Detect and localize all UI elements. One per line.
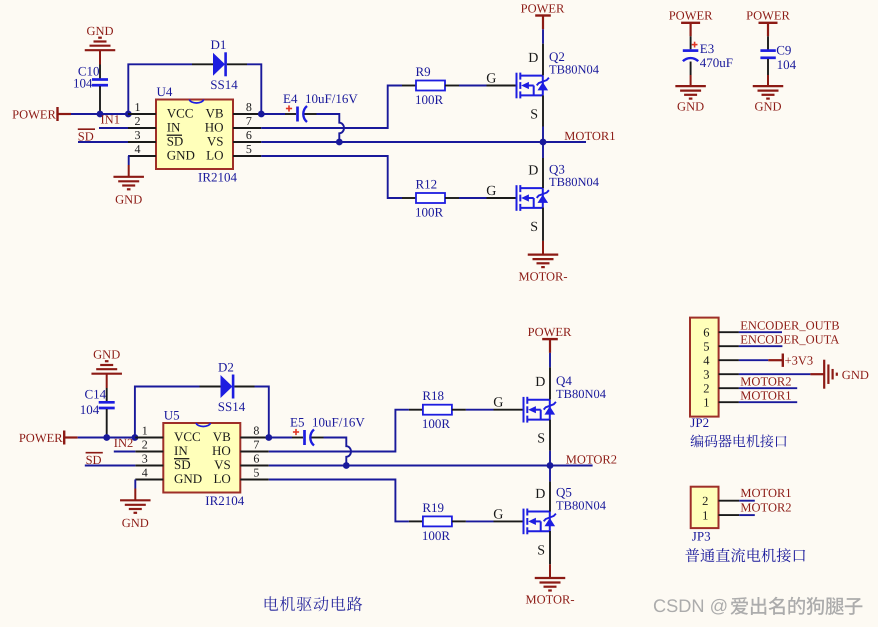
ground GND (below E3) bbox=[675, 75, 706, 114]
wire VCC loop to diode D2 bbox=[135, 387, 200, 435]
wire diode to VB node (sec2) bbox=[255, 387, 269, 435]
svg-text:C14: C14 bbox=[85, 386, 107, 401]
junction at D-loop branch (sec1) bbox=[125, 111, 132, 118]
svg-text:U4: U4 bbox=[157, 84, 173, 99]
net label ENCODER_OUTB bbox=[740, 319, 839, 333]
svg-text:+3V3: +3V3 bbox=[785, 353, 814, 367]
svg-text:VS: VS bbox=[214, 457, 231, 472]
svg-text:VS: VS bbox=[207, 133, 224, 148]
svg-text:2: 2 bbox=[702, 494, 708, 508]
svg-text:HO: HO bbox=[212, 443, 231, 458]
svg-text:100R: 100R bbox=[422, 528, 451, 543]
resistor R12 100R bbox=[402, 177, 459, 220]
capacitor E5 10uF/16V bbox=[269, 415, 366, 446]
svg-text:5: 5 bbox=[246, 142, 252, 156]
svg-text:POWER: POWER bbox=[669, 8, 713, 22]
net label IN2 bbox=[114, 436, 133, 450]
svg-text:LO: LO bbox=[206, 147, 223, 162]
svg-text:POWER: POWER bbox=[19, 431, 63, 445]
wire VCC loop to diode D1 bbox=[128, 64, 192, 111]
label encoder motor interface (Chinese) bbox=[690, 434, 786, 447]
transistor Q3 TB80N04 (low side) bbox=[486, 161, 600, 235]
title motor drive circuit (Chinese) bbox=[265, 596, 363, 611]
svg-text:Q3: Q3 bbox=[549, 161, 565, 176]
svg-text:7: 7 bbox=[253, 438, 259, 452]
svg-text:S: S bbox=[530, 220, 538, 235]
wire source Q4 to MOTOR2 bbox=[549, 420, 551, 466]
net label MOTOR2 bbox=[566, 453, 617, 467]
svg-text:GND: GND bbox=[122, 516, 149, 530]
wire pin3 to GND bbox=[739, 373, 811, 375]
wire pin4 to +3V3 bbox=[739, 359, 768, 361]
svg-text:GND: GND bbox=[86, 24, 113, 38]
svg-text:GND: GND bbox=[174, 471, 202, 486]
svg-text:8: 8 bbox=[253, 424, 259, 438]
power port POWER (above E3) bbox=[669, 8, 713, 36]
watermark CSDN bbox=[653, 596, 862, 616]
svg-text:3: 3 bbox=[142, 452, 148, 466]
svg-text:6: 6 bbox=[253, 452, 259, 466]
wire drain Q3 to MOTOR1 bbox=[542, 142, 544, 188]
wire MOTOR2 (JP3) bbox=[739, 514, 755, 516]
wire IN2 to pin2 bbox=[114, 451, 136, 453]
svg-text:104: 104 bbox=[73, 75, 93, 90]
transistor Q2 TB80N04 (high side) bbox=[486, 49, 600, 123]
svg-text:IR2104: IR2104 bbox=[198, 170, 238, 185]
wire MOTOR1 (JP2) bbox=[739, 401, 797, 403]
svg-text:GND: GND bbox=[677, 100, 704, 114]
label DC motor interface (Chinese) bbox=[685, 548, 805, 562]
svg-text:MOTOR2: MOTOR2 bbox=[740, 375, 791, 389]
wire LO to R (sec2) bbox=[269, 480, 409, 522]
svg-text:6: 6 bbox=[703, 326, 709, 340]
wire R to gate (R19) bbox=[466, 520, 494, 522]
svg-text:D: D bbox=[528, 163, 538, 178]
wire E5 to VS with hop bbox=[324, 438, 351, 466]
wire source Q5 to MOTOR- bbox=[549, 531, 551, 578]
svg-text:GND: GND bbox=[93, 347, 120, 361]
wire ENCODER_OUTA bbox=[739, 345, 783, 347]
junction VB node (sec1) bbox=[258, 111, 265, 118]
net label IN1 bbox=[101, 113, 120, 127]
svg-text:E4: E4 bbox=[283, 91, 298, 106]
wire HO to R (sec2) bbox=[269, 410, 409, 452]
resistor R19 100R bbox=[409, 500, 466, 543]
power port +3V3 bbox=[768, 353, 813, 367]
power port MOTOR- (sec2) bbox=[525, 578, 574, 607]
svg-text:CSDN @: CSDN @ bbox=[653, 596, 728, 616]
junction E4/VS bbox=[336, 139, 343, 146]
svg-text:7: 7 bbox=[246, 114, 252, 128]
wire MOTOR2 (JP2) bbox=[739, 387, 797, 389]
svg-text:VCC: VCC bbox=[167, 105, 194, 120]
svg-text:TB80N04: TB80N04 bbox=[556, 499, 607, 513]
svg-text:100R: 100R bbox=[415, 205, 444, 220]
svg-text:1: 1 bbox=[703, 396, 709, 410]
svg-text:Q4: Q4 bbox=[556, 373, 572, 388]
svg-text:ENCODER_OUTA: ENCODER_OUTA bbox=[740, 333, 839, 347]
svg-text:GND: GND bbox=[115, 193, 142, 207]
power port POWER (above C9) bbox=[746, 8, 790, 36]
wire R to gate (R18) bbox=[466, 409, 494, 411]
net label MOTOR1 bbox=[564, 129, 615, 143]
power port POWER (left, sec1) bbox=[12, 107, 71, 121]
svg-text:470uF: 470uF bbox=[700, 55, 733, 70]
ground GND (top, above C14) bbox=[91, 347, 122, 388]
ground GND (below U4) bbox=[113, 156, 144, 207]
svg-text:104: 104 bbox=[80, 402, 100, 417]
svg-text:VCC: VCC bbox=[174, 429, 201, 444]
svg-text:1: 1 bbox=[702, 509, 708, 523]
op-amp driver IC U4 IR2104 bbox=[128, 84, 261, 185]
wire source Q2 to MOTOR1 bbox=[542, 95, 544, 142]
svg-text:R12: R12 bbox=[416, 177, 438, 192]
svg-text:GND: GND bbox=[842, 368, 869, 382]
diode D2 SS14 bbox=[200, 359, 255, 414]
svg-text:3: 3 bbox=[703, 368, 709, 382]
ground GND (below U5) bbox=[120, 480, 151, 531]
svg-text:MOTOR1: MOTOR1 bbox=[740, 486, 791, 500]
svg-text:C9: C9 bbox=[776, 43, 791, 58]
wire ENCODER_OUTB bbox=[739, 331, 782, 333]
wire net MOTOR1 bbox=[261, 141, 586, 143]
svg-text:MOTOR-: MOTOR- bbox=[518, 269, 567, 283]
svg-text:R18: R18 bbox=[422, 388, 444, 403]
svg-text:SS14: SS14 bbox=[210, 77, 238, 92]
transistor Q4 TB80N04 (high side) bbox=[493, 373, 607, 447]
net label SD (sec1) bbox=[78, 129, 95, 144]
net label MOTOR1 (JP2) bbox=[740, 389, 791, 403]
svg-text:HO: HO bbox=[205, 119, 224, 134]
svg-text:2: 2 bbox=[135, 114, 141, 128]
svg-text:R19: R19 bbox=[422, 500, 444, 515]
svg-text:GND: GND bbox=[754, 100, 781, 114]
wire IN1 to pin2 bbox=[99, 127, 128, 129]
wire drain Q5 to MOTOR2 bbox=[549, 466, 551, 512]
svg-text:TB80N04: TB80N04 bbox=[556, 387, 607, 401]
svg-text:104: 104 bbox=[777, 57, 797, 72]
wire POWER to pin1 (sec2) bbox=[78, 437, 135, 439]
svg-text:LO: LO bbox=[213, 471, 230, 486]
net label SD (sec2) bbox=[86, 453, 103, 468]
capacitor C14 104 bbox=[80, 386, 115, 437]
svg-text:10uF/16V: 10uF/16V bbox=[305, 91, 358, 106]
wire net MOTOR2 bbox=[269, 465, 593, 467]
wire SD to pin3 (sec1) bbox=[78, 141, 128, 143]
connector JP3 (DC motor header) bbox=[691, 487, 740, 544]
svg-text:100R: 100R bbox=[415, 92, 444, 107]
svg-text:ENCODER_OUTB: ENCODER_OUTB bbox=[740, 319, 839, 333]
svg-text:8: 8 bbox=[246, 100, 252, 114]
svg-text:JP2: JP2 bbox=[690, 415, 709, 430]
ground GND (below C9) bbox=[753, 75, 784, 114]
svg-text:IN: IN bbox=[174, 443, 188, 458]
svg-text:3: 3 bbox=[135, 128, 141, 142]
svg-text:MOTOR1: MOTOR1 bbox=[740, 389, 791, 403]
junction at C10/POWER bbox=[97, 111, 104, 118]
svg-text:G: G bbox=[493, 396, 503, 411]
wire R to gate (R9) bbox=[459, 85, 487, 87]
wire diode to VB node (sec1) bbox=[247, 64, 261, 111]
svg-text:Q2: Q2 bbox=[549, 49, 565, 64]
net label MOTOR2 (JP2) bbox=[740, 375, 791, 389]
svg-text:Q5: Q5 bbox=[556, 485, 572, 500]
power port POWER (above Q2) bbox=[521, 2, 565, 30]
svg-text:MOTOR-: MOTOR- bbox=[525, 593, 574, 607]
svg-text:GND: GND bbox=[167, 147, 195, 162]
junction at D-loop branch (sec2) bbox=[132, 434, 139, 441]
capacitor E3 470uF bbox=[683, 36, 733, 75]
wire source Q3 to MOTOR- bbox=[542, 208, 544, 255]
svg-text:2: 2 bbox=[142, 438, 148, 452]
wire HO to R (sec1) bbox=[261, 86, 402, 129]
svg-text:D2: D2 bbox=[218, 359, 234, 374]
ground GND (top, above C10) bbox=[85, 24, 116, 65]
power port POWER (left, sec2) bbox=[19, 431, 78, 445]
junction E5/VS bbox=[343, 462, 350, 469]
svg-text:IN2: IN2 bbox=[114, 436, 133, 450]
junction VB node (sec2) bbox=[265, 434, 272, 441]
svg-text:TB80N04: TB80N04 bbox=[549, 175, 600, 189]
svg-text:100R: 100R bbox=[422, 416, 451, 431]
capacitor E4 10uF/16V bbox=[261, 91, 358, 122]
svg-text:G: G bbox=[486, 184, 496, 199]
svg-text:U5: U5 bbox=[164, 408, 180, 423]
wire POWER to drain (Q4) bbox=[549, 353, 551, 400]
wire R to gate (R12) bbox=[459, 197, 487, 199]
wire MOTOR1 (JP3) bbox=[739, 500, 755, 502]
svg-text:6: 6 bbox=[246, 128, 252, 142]
svg-text:MOTOR1: MOTOR1 bbox=[564, 129, 615, 143]
svg-text:D1: D1 bbox=[211, 37, 227, 52]
svg-text:POWER: POWER bbox=[528, 325, 572, 339]
capacitor C9 104 bbox=[760, 36, 796, 75]
svg-text:VB: VB bbox=[205, 105, 223, 120]
wire POWER to drain (Q2) bbox=[542, 29, 544, 75]
svg-text:TB80N04: TB80N04 bbox=[549, 63, 600, 77]
wire POWER to pin1 (sec1) bbox=[71, 113, 128, 115]
svg-text:1: 1 bbox=[142, 424, 148, 438]
net label MOTOR1 (JP3) bbox=[740, 486, 791, 500]
svg-text:S: S bbox=[537, 432, 545, 447]
svg-text:4: 4 bbox=[142, 466, 148, 480]
svg-text:D: D bbox=[528, 51, 538, 66]
diode D1 SS14 bbox=[192, 37, 247, 92]
svg-text:D: D bbox=[535, 487, 545, 502]
svg-text:G: G bbox=[486, 72, 496, 87]
svg-text:MOTOR2: MOTOR2 bbox=[740, 500, 791, 514]
resistor R9 100R bbox=[402, 64, 459, 107]
svg-text:POWER: POWER bbox=[12, 107, 56, 121]
svg-text:E5: E5 bbox=[290, 415, 304, 430]
svg-text:JP3: JP3 bbox=[692, 528, 711, 543]
svg-text:5: 5 bbox=[253, 466, 259, 480]
connector JP2 (encoder motor header) bbox=[690, 318, 739, 431]
power port POWER (above Q4) bbox=[528, 325, 572, 353]
power port MOTOR- (sec1) bbox=[518, 255, 567, 284]
net label MOTOR2 (JP3) bbox=[740, 500, 791, 514]
wire E4 to VS with hop bbox=[317, 114, 345, 142]
svg-text:R9: R9 bbox=[416, 64, 431, 79]
junction at C14/POWER bbox=[103, 434, 110, 441]
junction MOTOR2 bbox=[547, 462, 554, 469]
op-amp driver IC U5 IR2104 bbox=[135, 408, 268, 509]
svg-text:S: S bbox=[530, 108, 538, 123]
ground GND (JP2 pin3, rotated) bbox=[810, 360, 868, 389]
svg-text:MOTOR2: MOTOR2 bbox=[566, 453, 617, 467]
transistor Q5 TB80N04 (low side) bbox=[493, 485, 607, 559]
svg-text:IN: IN bbox=[167, 119, 181, 134]
svg-text:SS14: SS14 bbox=[218, 399, 246, 414]
resistor R18 100R bbox=[409, 388, 466, 431]
capacitor C10 104 bbox=[73, 64, 108, 115]
svg-text:2: 2 bbox=[703, 382, 709, 396]
svg-text:POWER: POWER bbox=[746, 8, 790, 22]
svg-text:10uF/16V: 10uF/16V bbox=[312, 415, 365, 430]
svg-text:IR2104: IR2104 bbox=[205, 493, 245, 508]
svg-text:S: S bbox=[537, 543, 545, 558]
wire LO to R (sec1) bbox=[261, 156, 402, 198]
svg-text:5: 5 bbox=[703, 340, 709, 354]
svg-text:4: 4 bbox=[703, 354, 710, 368]
junction MOTOR1 bbox=[540, 139, 547, 146]
svg-text:D: D bbox=[535, 375, 545, 390]
net label ENCODER_OUTA bbox=[740, 333, 839, 347]
svg-text:G: G bbox=[493, 507, 503, 522]
svg-text:IN1: IN1 bbox=[101, 113, 120, 127]
wire SD to pin3 (sec2) bbox=[85, 465, 136, 467]
svg-text:POWER: POWER bbox=[521, 2, 565, 16]
svg-text:VB: VB bbox=[213, 429, 231, 444]
svg-text:1: 1 bbox=[135, 100, 141, 114]
svg-text:4: 4 bbox=[135, 142, 141, 156]
